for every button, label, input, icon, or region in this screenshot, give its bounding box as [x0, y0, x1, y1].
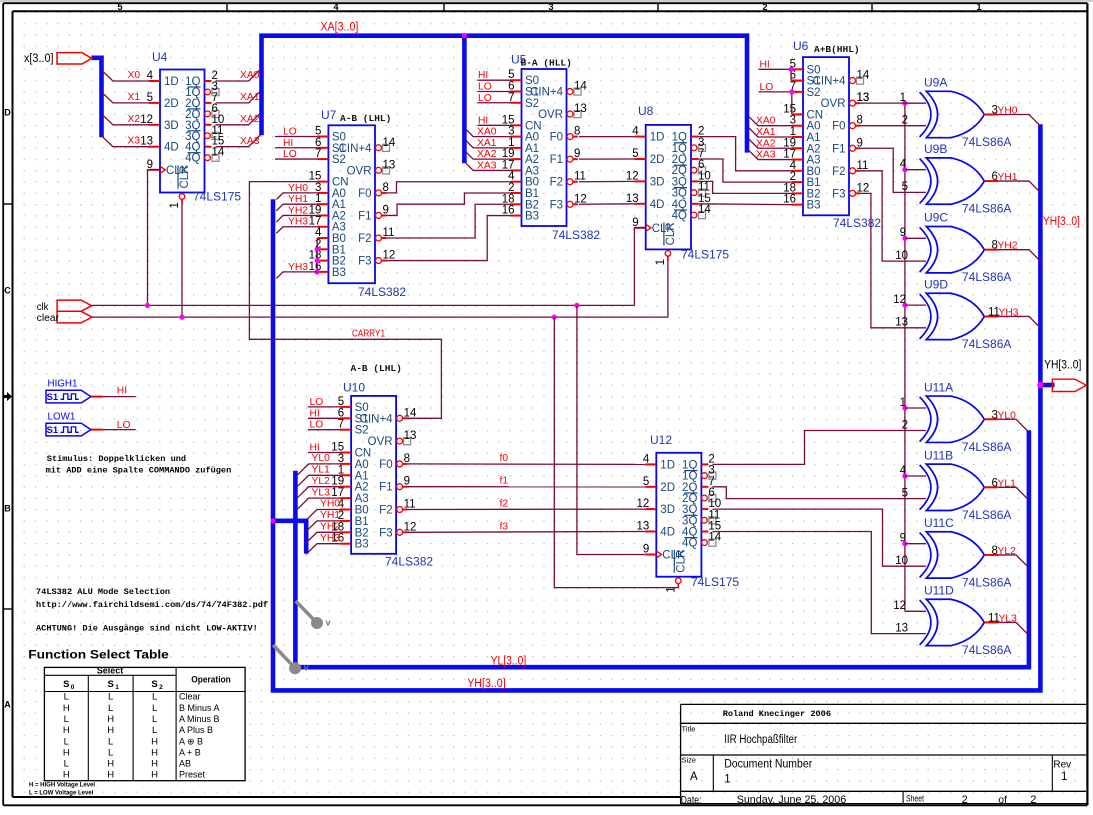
svg-text:LO: LO [478, 93, 492, 104]
svg-text:1D: 1D [660, 459, 675, 471]
svg-text:A1: A1 [332, 199, 346, 211]
svg-text:clear: clear [37, 313, 60, 324]
svg-text:L: L [64, 759, 69, 770]
svg-text:Roland Knecinger 2006: Roland Knecinger 2006 [723, 709, 831, 719]
svg-text:A2: A2 [355, 482, 369, 494]
svg-text:L: L [64, 714, 69, 725]
svg-text:Title: Title [682, 725, 696, 734]
svg-text:S0: S0 [332, 132, 346, 144]
svg-text:4: 4 [900, 465, 907, 477]
svg-text:U4: U4 [152, 50, 168, 64]
svg-text:3Q: 3Q [672, 188, 687, 200]
svg-text:L: L [108, 692, 113, 703]
svg-text:LO: LO [478, 81, 492, 92]
svg-text:14: 14 [708, 532, 721, 544]
svg-text:14: 14 [574, 80, 587, 92]
svg-text:2Q: 2Q [672, 165, 687, 177]
svg-text:F0: F0 [550, 132, 563, 144]
svg-text:U9D: U9D [924, 277, 948, 291]
svg-text:5: 5 [902, 181, 908, 193]
svg-text:YH0: YH0 [288, 183, 308, 194]
svg-text:7: 7 [708, 476, 714, 488]
svg-text:Date:: Date: [681, 794, 702, 806]
svg-text:U9B: U9B [924, 142, 947, 156]
svg-text:74LS382 ALU Mode Selection: 74LS382 ALU Mode Selection [36, 587, 170, 597]
svg-text:H: H [63, 725, 70, 736]
svg-text:2D: 2D [660, 482, 675, 494]
svg-text:S2: S2 [807, 87, 821, 99]
svg-text:YH1: YH1 [320, 510, 340, 521]
svg-text:2: 2 [159, 684, 163, 691]
svg-text:YH2: YH2 [320, 522, 340, 533]
svg-text:1Q: 1Q [672, 143, 687, 155]
svg-text:F3: F3 [832, 188, 845, 200]
svg-text:XA1: XA1 [477, 138, 497, 149]
svg-text:H: H [107, 714, 114, 725]
svg-text:YH0: YH0 [320, 499, 340, 510]
svg-text:1: 1 [900, 92, 906, 104]
svg-text:CLR: CLR [665, 222, 677, 245]
svg-text:XA1: XA1 [240, 92, 260, 103]
svg-text:H: H [63, 747, 70, 758]
svg-text:Rev: Rev [1053, 760, 1071, 771]
svg-text:2D: 2D [164, 98, 179, 110]
svg-text:Sheet: Sheet [906, 794, 924, 804]
svg-text:YL1: YL1 [998, 478, 1017, 489]
svg-text:1: 1 [724, 774, 730, 786]
svg-text:F2: F2 [550, 177, 563, 189]
svg-text:OVR: OVR [368, 436, 393, 448]
svg-text:B1: B1 [807, 177, 821, 189]
svg-text:15: 15 [698, 193, 711, 205]
svg-text:YH1: YH1 [998, 172, 1018, 183]
svg-text:f3: f3 [500, 521, 509, 532]
svg-text:f2: f2 [500, 499, 509, 510]
svg-text:B0: B0 [355, 505, 369, 517]
svg-text:Preset: Preset [179, 770, 206, 780]
svg-text:HI: HI [478, 115, 488, 126]
svg-text:HIGH1: HIGH1 [48, 378, 78, 389]
svg-text:L: L [64, 736, 69, 747]
svg-text:H: H [63, 770, 70, 781]
svg-text:f1: f1 [500, 476, 509, 487]
svg-text:YL1: YL1 [312, 465, 331, 476]
svg-text:clk: clk [37, 302, 50, 313]
svg-text:YH2: YH2 [288, 205, 308, 216]
svg-text:14: 14 [212, 147, 225, 159]
svg-text:AB: AB [179, 759, 191, 769]
svg-text:13: 13 [404, 430, 417, 442]
svg-text:S2: S2 [332, 154, 346, 166]
svg-text:74LS382: 74LS382 [833, 216, 881, 230]
svg-text:Sunday, June 25, 2006: Sunday, June 25, 2006 [737, 794, 847, 806]
svg-text:74LS86A: 74LS86A [962, 508, 1011, 522]
svg-text:S0: S0 [807, 64, 821, 76]
svg-text:v: v [326, 618, 331, 628]
svg-text:S2: S2 [355, 425, 369, 437]
svg-text:2Q: 2Q [672, 154, 687, 166]
svg-text:F2: F2 [358, 233, 371, 245]
svg-text:OVR: OVR [538, 109, 563, 121]
svg-text:XA0: XA0 [240, 70, 260, 81]
svg-text:A-B (LHL): A-B (LHL) [351, 363, 402, 374]
svg-text:XA3: XA3 [240, 136, 260, 147]
svg-text:HI: HI [478, 70, 488, 81]
svg-text:74LS382: 74LS382 [358, 285, 406, 299]
svg-text:9: 9 [900, 533, 906, 545]
svg-text:F1: F1 [358, 210, 371, 222]
svg-text:H: H [107, 759, 114, 770]
svg-text:4D: 4D [660, 527, 675, 539]
svg-text:http://www.fairchildsemi.com/d: http://www.fairchildsemi.com/ds/74/74F38… [36, 600, 268, 610]
svg-text:F2: F2 [379, 505, 392, 517]
svg-text:Clear: Clear [179, 692, 201, 702]
svg-text:L: L [108, 747, 113, 758]
svg-text:B0: B0 [807, 166, 821, 178]
svg-text:2: 2 [962, 794, 968, 806]
svg-text:74LS175: 74LS175 [691, 575, 739, 589]
svg-text:4D: 4D [650, 199, 665, 211]
svg-text:3: 3 [698, 137, 704, 149]
svg-text:74LS86A: 74LS86A [962, 337, 1011, 351]
svg-text:S0: S0 [355, 402, 369, 414]
svg-text:9: 9 [900, 227, 906, 239]
svg-text:74LS86A: 74LS86A [962, 270, 1011, 284]
svg-text:11: 11 [698, 182, 710, 194]
svg-text:1D: 1D [650, 132, 665, 144]
svg-text:74LS86A: 74LS86A [962, 135, 1011, 149]
svg-text:YL3: YL3 [999, 613, 1018, 624]
svg-text:HI: HI [310, 443, 320, 454]
svg-text:A Plus B: A Plus B [179, 725, 213, 735]
svg-text:4Q: 4Q [672, 210, 687, 222]
svg-text:XA2: XA2 [240, 114, 260, 125]
svg-text:6: 6 [698, 159, 704, 171]
svg-text:F3: F3 [379, 527, 392, 539]
svg-text:4Q: 4Q [185, 153, 200, 165]
svg-text:74LS175: 74LS175 [193, 190, 241, 204]
svg-text:5: 5 [117, 2, 122, 12]
svg-text:13: 13 [574, 103, 587, 115]
svg-text:CIN+4: CIN+4 [360, 413, 394, 425]
svg-text:F3: F3 [358, 256, 371, 268]
svg-text:CLR: CLR [179, 165, 191, 188]
svg-text:2: 2 [902, 115, 908, 127]
svg-text:2Q: 2Q [682, 482, 697, 494]
svg-text:CLR: CLR [675, 550, 687, 573]
svg-text:YH[3..0]: YH[3..0] [467, 678, 506, 690]
svg-text:A: A [690, 771, 698, 783]
svg-text:A ⊕ B: A ⊕ B [179, 736, 203, 746]
svg-text:B3: B3 [355, 539, 369, 551]
svg-text:LOW1: LOW1 [48, 411, 76, 422]
svg-text:U11C: U11C [924, 516, 954, 530]
svg-text:U9C: U9C [924, 211, 948, 225]
svg-text:OVR: OVR [821, 98, 846, 110]
svg-text:U10: U10 [343, 381, 365, 395]
svg-text:HI: HI [310, 408, 320, 419]
svg-text:U8: U8 [638, 104, 654, 118]
svg-text:X0: X0 [128, 70, 141, 81]
svg-text:U12: U12 [650, 433, 672, 447]
svg-text:U11B: U11B [924, 448, 953, 462]
svg-text:B1: B1 [525, 188, 539, 200]
svg-text:L: L [152, 725, 157, 736]
svg-text:YH3: YH3 [288, 217, 308, 228]
svg-text:A3: A3 [355, 493, 369, 505]
svg-text:14: 14 [857, 70, 870, 82]
svg-text:CN: CN [332, 177, 349, 189]
svg-text:F2: F2 [832, 166, 845, 178]
svg-text:IIR Hochpaßfilter: IIR Hochpaßfilter [724, 734, 797, 746]
svg-text:74LS86A: 74LS86A [962, 575, 1011, 589]
svg-text:YL2: YL2 [998, 546, 1017, 557]
svg-text:S1: S1 [47, 425, 59, 436]
svg-text:74LS175: 74LS175 [681, 248, 729, 262]
svg-text:H = HIGH Voltage Level: H = HIGH Voltage Level [29, 783, 95, 789]
svg-text:U9A: U9A [924, 76, 947, 90]
svg-text:H: H [151, 736, 158, 747]
svg-text:A2: A2 [807, 143, 821, 155]
svg-text:OVR: OVR [347, 165, 372, 177]
svg-text:A-B (LHL): A-B (LHL) [340, 113, 391, 124]
svg-text:L = LOW Voltage Level: L = LOW Voltage Level [29, 791, 94, 797]
svg-text:L: L [64, 692, 69, 703]
svg-text:CIN+4: CIN+4 [813, 76, 847, 88]
svg-text:A2: A2 [525, 154, 539, 166]
svg-text:10: 10 [895, 555, 908, 567]
svg-text:A0: A0 [355, 459, 369, 471]
svg-text:B3: B3 [525, 211, 539, 223]
svg-text:L: L [152, 692, 157, 703]
svg-text:3: 3 [708, 465, 714, 477]
svg-text:HI: HI [760, 59, 770, 70]
svg-text:10: 10 [708, 498, 721, 510]
svg-text:3D: 3D [164, 120, 179, 132]
svg-text:LO: LO [310, 420, 324, 431]
svg-text:Operation: Operation [191, 675, 231, 686]
svg-text:S: S [151, 679, 157, 690]
svg-text:S: S [108, 679, 114, 690]
svg-text:B Minus A: B Minus A [179, 703, 220, 713]
svg-text:13: 13 [383, 159, 396, 171]
svg-text:F1: F1 [832, 143, 845, 155]
svg-text:Select: Select [97, 666, 124, 676]
svg-text:B2: B2 [807, 188, 821, 200]
svg-text:74LS382: 74LS382 [385, 555, 433, 569]
svg-text:HI: HI [283, 138, 293, 149]
svg-text:74LS86A: 74LS86A [962, 643, 1011, 657]
svg-text:v: v [304, 663, 309, 673]
svg-text:XA0: XA0 [756, 116, 776, 127]
svg-text:L: L [108, 703, 113, 714]
svg-text:F0: F0 [832, 121, 845, 133]
svg-text:H: H [107, 725, 114, 736]
svg-text:of: of [998, 794, 1007, 806]
svg-text:2: 2 [762, 2, 767, 12]
svg-text:B2: B2 [332, 256, 346, 268]
svg-text:2: 2 [708, 453, 714, 465]
svg-text:11: 11 [708, 509, 720, 521]
svg-text:2: 2 [902, 419, 908, 431]
svg-text:CN: CN [355, 448, 372, 460]
svg-text:3D: 3D [650, 176, 665, 188]
svg-text:F0: F0 [358, 188, 371, 200]
svg-text:0: 0 [71, 684, 75, 691]
svg-text:YH[3..0]: YH[3..0] [1044, 360, 1081, 372]
svg-text:H: H [151, 770, 158, 781]
svg-text:S1: S1 [47, 392, 59, 403]
svg-text:XA[3..0]: XA[3..0] [320, 22, 358, 34]
svg-text:F0: F0 [379, 459, 392, 471]
svg-text:B1: B1 [332, 244, 346, 256]
svg-text:2: 2 [698, 126, 704, 138]
svg-text:3Q: 3Q [672, 176, 687, 188]
svg-text:YL3: YL3 [312, 487, 331, 498]
svg-text:CN: CN [807, 109, 824, 121]
svg-text:B0: B0 [332, 233, 346, 245]
svg-text:X2: X2 [128, 114, 141, 125]
svg-text:B1: B1 [355, 516, 369, 528]
svg-text:H: H [151, 759, 158, 770]
svg-text:Size: Size [682, 756, 697, 765]
svg-text:1D: 1D [164, 76, 179, 88]
svg-text:D: D [4, 108, 11, 118]
svg-text:CN: CN [525, 120, 542, 132]
svg-text:5: 5 [902, 487, 908, 499]
svg-text:XA2: XA2 [756, 138, 776, 149]
svg-text:1: 1 [900, 397, 906, 409]
svg-text:74LS382: 74LS382 [552, 228, 600, 242]
svg-text:YH0: YH0 [998, 106, 1018, 117]
svg-text:mit ADD eine Spalte COMMANDO z: mit ADD eine Spalte COMMANDO zufügen [46, 466, 232, 476]
svg-text:10: 10 [698, 170, 711, 182]
svg-text:A2: A2 [332, 210, 346, 222]
svg-text:H: H [107, 770, 114, 781]
svg-text:B2: B2 [355, 527, 369, 539]
svg-text:S2: S2 [525, 98, 539, 110]
svg-text:A1: A1 [355, 470, 369, 482]
svg-text:S: S [63, 679, 69, 690]
svg-text:1: 1 [1061, 771, 1067, 783]
svg-text:L: L [152, 703, 157, 714]
svg-text:X3: X3 [128, 136, 141, 147]
svg-text:YL0: YL0 [312, 453, 331, 464]
svg-text:YL[3..0]: YL[3..0] [491, 655, 527, 667]
svg-text:LO: LO [117, 420, 131, 431]
svg-text:F1: F1 [550, 154, 563, 166]
svg-text:1: 1 [169, 202, 181, 208]
svg-text:13: 13 [895, 317, 908, 329]
svg-text:13: 13 [895, 622, 908, 634]
svg-text:LO: LO [283, 127, 297, 138]
svg-text:YH3: YH3 [288, 262, 308, 273]
svg-text:7: 7 [698, 148, 704, 160]
svg-text:1: 1 [976, 2, 981, 12]
svg-text:YH2: YH2 [998, 241, 1018, 252]
svg-text:LO: LO [310, 397, 324, 408]
svg-text:A3: A3 [525, 165, 539, 177]
svg-text:74LS86A: 74LS86A [962, 440, 1011, 454]
svg-text:A3: A3 [332, 222, 346, 234]
svg-text:4: 4 [333, 2, 338, 12]
svg-text:A0: A0 [332, 188, 346, 200]
svg-text:HI: HI [117, 386, 127, 397]
svg-text:B2: B2 [525, 199, 539, 211]
svg-text:A: A [4, 700, 11, 710]
svg-text:H: H [63, 703, 70, 714]
svg-text:XA1: XA1 [756, 127, 776, 138]
svg-text:Function Select Table: Function Select Table [28, 648, 169, 662]
svg-text:YH1: YH1 [288, 194, 308, 205]
svg-text:XA3: XA3 [756, 150, 776, 161]
svg-text:B: B [4, 504, 11, 514]
svg-text:LO: LO [760, 82, 774, 93]
svg-text:A+B(HHL): A+B(HHL) [814, 44, 860, 55]
svg-text:4Q: 4Q [682, 538, 697, 550]
svg-text:A Minus B: A Minus B [179, 714, 220, 724]
svg-text:f0: f0 [500, 453, 509, 464]
svg-text:YL0: YL0 [998, 410, 1017, 421]
svg-text:1: 1 [655, 259, 667, 265]
svg-text:XA0: XA0 [477, 127, 497, 138]
svg-text:4Q: 4Q [672, 199, 687, 211]
svg-text:3: 3 [548, 2, 553, 12]
svg-text:YH[3..0]: YH[3..0] [1043, 216, 1080, 228]
svg-text:1Q: 1Q [672, 132, 687, 144]
svg-text:A0: A0 [807, 121, 821, 133]
svg-text:LO: LO [283, 149, 297, 160]
svg-text:1: 1 [115, 684, 119, 691]
svg-text:A0: A0 [525, 132, 539, 144]
svg-text:1Q: 1Q [682, 471, 697, 483]
svg-text:3Q: 3Q [682, 504, 697, 516]
svg-text:12: 12 [893, 600, 906, 612]
svg-text:14: 14 [698, 204, 711, 216]
svg-text:U11D: U11D [924, 583, 954, 597]
svg-text:B-A (HLL): B-A (HLL) [521, 58, 572, 69]
svg-text:L: L [108, 736, 113, 747]
svg-text:10: 10 [895, 250, 908, 262]
svg-text:YH3: YH3 [320, 533, 340, 544]
svg-text:4D: 4D [164, 142, 179, 154]
svg-text:XA3: XA3 [477, 160, 497, 171]
svg-text:X1: X1 [128, 92, 141, 103]
svg-text:CARRY1: CARRY1 [352, 329, 385, 340]
svg-text:B3: B3 [332, 267, 346, 279]
svg-text:2: 2 [1030, 794, 1036, 806]
svg-text:1Q: 1Q [682, 459, 697, 471]
svg-text:B3: B3 [807, 200, 821, 212]
svg-text:CIN+4: CIN+4 [339, 143, 373, 155]
svg-text:4: 4 [900, 159, 907, 171]
svg-text:F3: F3 [550, 199, 563, 211]
svg-text:U7: U7 [321, 108, 337, 122]
svg-text:XA2: XA2 [477, 149, 497, 160]
svg-text:3D: 3D [660, 504, 675, 516]
svg-text:A3: A3 [807, 155, 821, 167]
svg-text:A1: A1 [525, 143, 539, 155]
svg-text:A + B: A + B [179, 747, 201, 757]
svg-text:12: 12 [893, 294, 906, 306]
svg-text:F1: F1 [379, 482, 392, 494]
svg-text:ACHTUNG! Die Ausgänge sind nic: ACHTUNG! Die Ausgänge sind nicht LOW-AKT… [36, 624, 258, 634]
svg-text:L: L [152, 714, 157, 725]
svg-text:U6: U6 [793, 39, 809, 53]
svg-text:74LS86A: 74LS86A [962, 202, 1011, 216]
svg-text:CIN+4: CIN+4 [530, 86, 564, 98]
svg-text:3Q: 3Q [682, 515, 697, 527]
